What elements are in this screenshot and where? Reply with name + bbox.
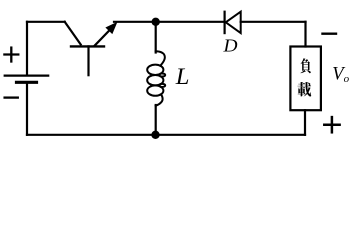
- battery minus sign: [5, 96, 18, 98]
- load text 載: [297, 82, 311, 96]
- load plus sign: [324, 117, 339, 132]
- load text 負: [300, 58, 311, 73]
- diode D: [225, 12, 241, 33]
- svg-text:L: L: [175, 65, 190, 90]
- wire top rail left: [27, 21, 65, 23]
- node dot top: [152, 18, 160, 26]
- wire inductor top lead: [155, 22, 157, 53]
- transistor (BJT switch): [65, 22, 118, 75]
- wire top rail right: [241, 21, 306, 23]
- node dot bottom: [151, 131, 159, 139]
- wire bottom rail: [27, 134, 305, 136]
- inductor L coil: [147, 51, 165, 106]
- wire top rail middle: [114, 21, 224, 23]
- wire inductor bottom lead: [155, 105, 157, 135]
- wire left vertical top: [26, 22, 28, 75]
- load box: [290, 47, 321, 111]
- svg-text:D: D: [223, 36, 239, 56]
- battery plus sign: [4, 48, 18, 62]
- wire left vertical bottom: [26, 84, 28, 135]
- battery positive long plate: [5, 74, 49, 76]
- wire right drop: [304, 22, 306, 47]
- load minus sign: [323, 33, 337, 35]
- wire load to bottom rail: [304, 110, 306, 135]
- battery negative short plate: [17, 81, 37, 84]
